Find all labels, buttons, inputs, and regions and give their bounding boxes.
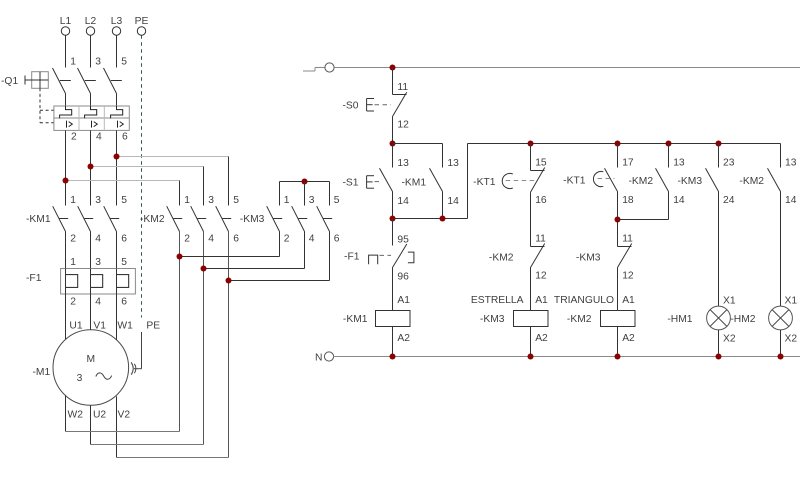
svg-text:2: 2	[184, 234, 190, 245]
svg-text:A2: A2	[535, 333, 548, 344]
svg-text:-KM1: -KM1	[26, 214, 51, 225]
svg-text:W1: W1	[117, 321, 133, 332]
svg-text:6: 6	[334, 234, 340, 245]
svg-text:-S1: -S1	[342, 178, 358, 189]
svg-text:1: 1	[284, 195, 290, 206]
svg-text:17: 17	[622, 158, 634, 169]
svg-text:X2: X2	[785, 334, 798, 345]
svg-text:-KM3: -KM3	[576, 253, 601, 264]
svg-text:4: 4	[95, 234, 101, 245]
svg-text:1: 1	[70, 57, 76, 68]
svg-text:-HM2: -HM2	[730, 314, 755, 325]
svg-text:-KM3: -KM3	[678, 176, 703, 187]
svg-text:1: 1	[184, 195, 190, 206]
svg-text:1: 1	[70, 257, 76, 268]
svg-text:TRIANGULO: TRIANGULO	[554, 295, 614, 306]
svg-text:13: 13	[673, 158, 685, 169]
svg-text:L2: L2	[85, 16, 97, 27]
svg-text:14: 14	[673, 195, 685, 206]
svg-text:2: 2	[71, 132, 77, 143]
svg-text:95: 95	[397, 235, 409, 246]
svg-text:-KM2: -KM2	[489, 253, 514, 264]
svg-text:-KT1: -KT1	[473, 177, 496, 188]
svg-text:3: 3	[95, 57, 101, 68]
svg-text:3: 3	[77, 373, 83, 384]
svg-text:-KM1: -KM1	[343, 314, 368, 325]
svg-text:12: 12	[397, 120, 409, 131]
svg-text:-KM2: -KM2	[140, 214, 165, 225]
svg-text:-KM3: -KM3	[240, 214, 265, 225]
svg-text:5: 5	[334, 195, 340, 206]
svg-text:-S0: -S0	[342, 101, 358, 112]
svg-text:6: 6	[121, 297, 127, 308]
svg-text:24: 24	[723, 195, 735, 206]
svg-text:11: 11	[622, 234, 633, 245]
svg-text:2: 2	[70, 234, 76, 245]
svg-text:12: 12	[535, 271, 547, 282]
svg-text:3: 3	[95, 195, 101, 206]
svg-text:-KM2: -KM2	[739, 176, 764, 187]
svg-text:U1: U1	[69, 321, 82, 332]
svg-text:N: N	[315, 353, 322, 364]
svg-text:ESTRELLA: ESTRELLA	[471, 295, 524, 306]
svg-text:5: 5	[121, 257, 127, 268]
svg-text:A1: A1	[397, 295, 410, 306]
svg-text:-KM2: -KM2	[629, 176, 654, 187]
svg-text:U2: U2	[93, 410, 106, 421]
svg-text:23: 23	[723, 158, 735, 169]
svg-text:13: 13	[397, 158, 409, 169]
svg-text:5: 5	[233, 195, 239, 206]
svg-text:18: 18	[622, 195, 634, 206]
svg-text:-F1: -F1	[26, 273, 42, 284]
svg-text:A1: A1	[535, 295, 548, 306]
svg-text:4: 4	[95, 297, 101, 308]
svg-text:6: 6	[121, 234, 127, 245]
svg-text:14: 14	[447, 196, 459, 207]
svg-text:14: 14	[397, 196, 409, 207]
svg-text:11: 11	[397, 82, 408, 93]
svg-text:M: M	[87, 354, 96, 365]
svg-text:1: 1	[70, 195, 76, 206]
svg-text:5: 5	[121, 195, 127, 206]
svg-text:A1: A1	[622, 295, 635, 306]
svg-text:L3: L3	[111, 16, 123, 27]
svg-text:13: 13	[785, 158, 797, 169]
svg-text:96: 96	[397, 272, 409, 283]
svg-text:4: 4	[208, 234, 214, 245]
svg-text:X2: X2	[723, 334, 736, 345]
svg-text:5: 5	[121, 57, 127, 68]
svg-text:15: 15	[535, 158, 547, 169]
svg-text:4: 4	[96, 132, 102, 143]
svg-text:-F1: -F1	[344, 252, 360, 263]
svg-text:PE: PE	[135, 16, 149, 27]
svg-text:-KM2: -KM2	[567, 314, 592, 325]
svg-text:-Q1: -Q1	[1, 76, 18, 87]
svg-text:14: 14	[785, 195, 797, 206]
svg-text:11: 11	[535, 234, 546, 245]
svg-text:W2: W2	[68, 410, 84, 421]
svg-text:3: 3	[208, 195, 214, 206]
svg-text:2: 2	[284, 234, 290, 245]
svg-text:2: 2	[70, 297, 76, 308]
svg-text:V2: V2	[118, 410, 131, 421]
svg-text:-M1: -M1	[33, 367, 51, 378]
svg-text:-KT1: -KT1	[563, 176, 586, 187]
svg-text:X1: X1	[723, 296, 736, 307]
svg-text:13: 13	[447, 158, 459, 169]
svg-text:-HM1: -HM1	[667, 314, 692, 325]
svg-text:3: 3	[309, 195, 315, 206]
svg-text:X1: X1	[785, 296, 798, 307]
svg-text:12: 12	[622, 271, 634, 282]
svg-text:4: 4	[309, 234, 315, 245]
svg-text:-KM1: -KM1	[402, 178, 427, 189]
svg-text:A2: A2	[622, 333, 635, 344]
svg-text:PE: PE	[146, 321, 160, 332]
svg-text:16: 16	[535, 195, 547, 206]
svg-text:3: 3	[95, 257, 101, 268]
svg-text:-KM3: -KM3	[480, 314, 505, 325]
svg-text:A2: A2	[397, 333, 410, 344]
svg-text:6: 6	[233, 234, 239, 245]
svg-text:L1: L1	[60, 16, 72, 27]
svg-text:6: 6	[122, 132, 128, 143]
